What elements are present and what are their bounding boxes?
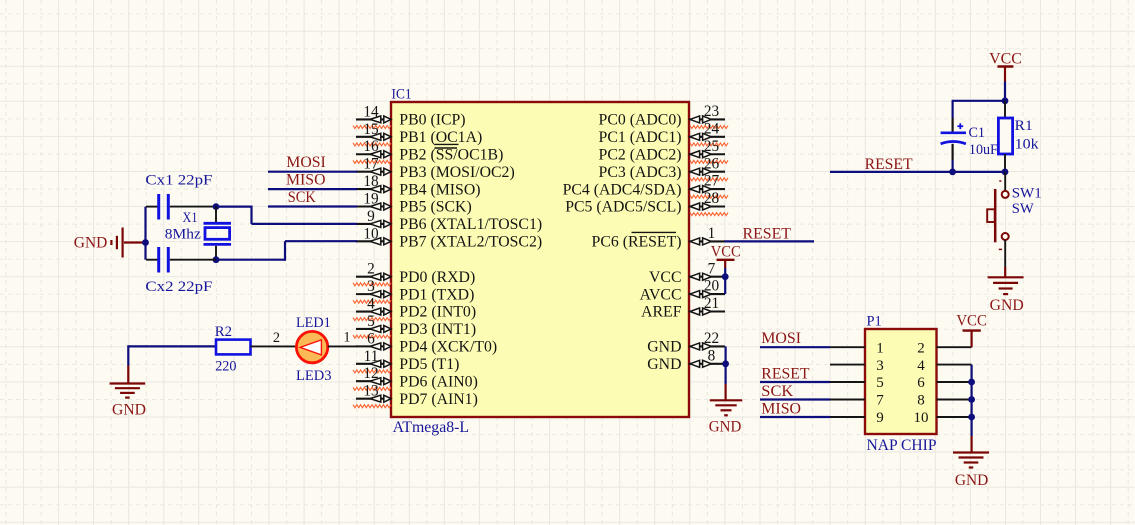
- svg-text:PD5 (T1): PD5 (T1): [399, 356, 459, 373]
- pin 8 (GND): [689, 363, 725, 365]
- pin 13 (PD7): [356, 398, 391, 400]
- svg-text:PB4 (MISO): PB4 (MISO): [399, 181, 480, 198]
- wire net RESET pin1: [724, 240, 814, 242]
- wire net MOSI p1: [760, 346, 830, 348]
- ground GND sw1: [1004, 267, 1006, 277]
- pin 24 (PC1): [689, 136, 725, 138]
- svg-text:2: 2: [367, 261, 375, 278]
- wire net RESET right: [830, 171, 1005, 173]
- wire p1 gnd rail: [970, 365, 972, 436]
- svg-text:2: 2: [273, 330, 280, 346]
- wire vcc to pin7: [724, 268, 726, 277]
- junction node p1-10: [968, 414, 975, 421]
- svg-text:9: 9: [876, 410, 884, 426]
- svg-text:8Mhz: 8Mhz: [165, 226, 201, 242]
- wire pin22 pin8 gnd: [724, 346, 726, 384]
- svg-text:VCC: VCC: [989, 51, 1022, 68]
- svg-text:15: 15: [363, 121, 379, 138]
- P1 pin 9: [830, 416, 865, 418]
- pin 25 (PC2): [689, 153, 725, 155]
- svg-text:IC1: IC1: [392, 87, 412, 103]
- svg-text:PC1 (ADC1): PC1 (ADC1): [599, 129, 682, 146]
- pin 11 (PD5): [356, 363, 391, 365]
- pin 26 (PC3): [689, 171, 725, 173]
- wire vcc down: [1004, 82, 1006, 101]
- svg-text:23: 23: [704, 103, 720, 120]
- svg-text:18: 18: [363, 173, 379, 190]
- pin 16 (PB2): [356, 153, 391, 155]
- svg-text:MISO: MISO: [761, 400, 801, 417]
- svg-text:4: 4: [367, 296, 375, 313]
- junction node XTAL1: [213, 203, 220, 210]
- pin 5 (PD3): [356, 328, 391, 330]
- wire LED to pin6: [328, 345, 357, 347]
- svg-text:RESET: RESET: [865, 156, 914, 173]
- svg-text:25: 25: [704, 138, 720, 155]
- pin 10 (PB7): [356, 240, 391, 242]
- svg-text:PC0 (ADC0): PC0 (ADC0): [599, 112, 682, 129]
- svg-text:PC2 (ADC2): PC2 (ADC2): [599, 146, 682, 163]
- svg-text:GND: GND: [647, 356, 681, 373]
- P1 pin 6: [937, 381, 972, 383]
- svg-text:4: 4: [917, 358, 925, 374]
- pin 17 (PB3): [356, 171, 391, 173]
- svg-text:3: 3: [876, 358, 884, 374]
- svg-text:5: 5: [367, 313, 375, 330]
- svg-text:5: 5: [876, 375, 884, 391]
- svg-text:NAP CHIP: NAP CHIP: [867, 437, 937, 454]
- svg-text:VCC: VCC: [649, 269, 681, 286]
- ground GND chip: [724, 384, 726, 400]
- svg-text:GND: GND: [709, 419, 742, 436]
- svg-text:PD0 (RXD): PD0 (RXD): [399, 269, 475, 286]
- svg-text:3: 3: [367, 278, 375, 295]
- svg-text:12: 12: [363, 365, 378, 382]
- crystal X1: [215, 207, 217, 222]
- svg-text:10uF: 10uF: [969, 142, 998, 158]
- P1 pin 8: [937, 399, 972, 401]
- svg-text:PB1 (OC1A): PB1 (OC1A): [399, 129, 482, 146]
- svg-text:17: 17: [363, 156, 379, 173]
- svg-text:PB6 (XTAL1/TOSC1): PB6 (XTAL1/TOSC1): [399, 216, 542, 233]
- junction node p1-8: [968, 396, 975, 403]
- svg-text:R1: R1: [1015, 118, 1033, 134]
- pin 9 (PB6): [356, 223, 391, 225]
- svg-text:VCC: VCC: [956, 313, 987, 330]
- svg-text:14: 14: [363, 103, 379, 120]
- svg-text:SW: SW: [1012, 201, 1035, 217]
- svg-text:6: 6: [917, 375, 925, 391]
- svg-text:24: 24: [704, 120, 720, 137]
- svg-text:RESET: RESET: [743, 226, 792, 243]
- svg-text:11: 11: [364, 348, 379, 365]
- pin 4 (PD2): [356, 310, 391, 312]
- wire gnd to R2: [128, 345, 216, 347]
- junction node XTAL2: [213, 256, 220, 263]
- svg-text:RESET: RESET: [761, 365, 810, 382]
- svg-text:1: 1: [708, 225, 716, 242]
- svg-text:MOSI: MOSI: [286, 154, 326, 171]
- wire net MISO p1: [760, 416, 830, 418]
- svg-text:27: 27: [704, 173, 720, 190]
- svg-text:10k: 10k: [1015, 137, 1040, 153]
- junction node r1-bottom: [1002, 169, 1009, 176]
- svg-text:19: 19: [363, 191, 379, 208]
- svg-text:GND: GND: [955, 472, 988, 489]
- wire net MOSI: [268, 171, 357, 173]
- pin 23 (PC0): [689, 118, 725, 120]
- svg-text:10: 10: [914, 410, 929, 426]
- junction node p1-6: [968, 379, 975, 386]
- pin 27 (PC4): [689, 188, 725, 190]
- PC6 RESET overline: [632, 231, 677, 233]
- wire sw1 to gnd: [1004, 240, 1006, 267]
- pin 14 (PB0): [356, 118, 391, 120]
- wire net SCK p1: [760, 398, 830, 400]
- svg-text:R2: R2: [215, 324, 232, 340]
- junction node c1-bottom: [949, 169, 956, 176]
- svg-text:PB7 (XTAL2/TOSC2): PB7 (XTAL2/TOSC2): [399, 234, 542, 251]
- capacitor C1 10uF: [951, 101, 953, 118]
- svg-text:9: 9: [367, 208, 375, 225]
- svg-text:AVCC: AVCC: [640, 286, 682, 303]
- svg-text:Cx2 22pF: Cx2 22pF: [145, 279, 212, 295]
- svg-text:20: 20: [704, 278, 720, 295]
- svg-text:Cx1 22pF: Cx1 22pF: [145, 173, 212, 189]
- svg-text:GND: GND: [112, 402, 146, 419]
- svg-text:PD4 (XCK/T0): PD4 (XCK/T0): [399, 339, 497, 356]
- pin 28 (PC5): [689, 205, 725, 207]
- svg-text:AREF: AREF: [641, 304, 682, 321]
- svg-text:LED3: LED3: [296, 368, 332, 384]
- wire r1 to sw1: [1004, 172, 1006, 191]
- svg-text:16: 16: [363, 138, 379, 155]
- led LED1 symbol: [296, 331, 327, 362]
- svg-text:PC6 (RESET): PC6 (RESET): [592, 234, 682, 251]
- svg-text:PB3 (MOSI/OC2): PB3 (MOSI/OC2): [399, 164, 514, 181]
- P1 pin 3: [830, 364, 865, 366]
- resistor R1: [1004, 101, 1006, 118]
- svg-text:7: 7: [708, 260, 716, 277]
- pin 21 (AREF): [689, 310, 725, 312]
- junction node pin7: [722, 273, 729, 280]
- wire net RESET p1: [760, 381, 830, 383]
- P1 pin 1: [830, 346, 865, 348]
- svg-text:26: 26: [704, 155, 720, 172]
- P1 pin 4: [937, 364, 972, 366]
- svg-text:2: 2: [917, 340, 925, 356]
- pin 7 (VCC): [689, 276, 725, 278]
- IC U1 body (ATmega8-L): [391, 102, 689, 417]
- wire R2 to LED: [251, 345, 297, 347]
- svg-text:X1: X1: [183, 210, 198, 226]
- svg-text:7: 7: [876, 393, 884, 409]
- pin 1 (PC6): [689, 240, 725, 242]
- junction node pin8: [722, 360, 729, 367]
- pin 15 (PB1): [356, 136, 391, 138]
- svg-text:P1: P1: [867, 314, 882, 330]
- svg-text:PD2 (INT0): PD2 (INT0): [399, 304, 476, 321]
- svg-text:1: 1: [876, 340, 884, 356]
- svg-text:GND: GND: [990, 297, 1024, 314]
- svg-text:PD3 (INT1): PD3 (INT1): [399, 321, 476, 338]
- svg-text:SCK: SCK: [288, 189, 317, 206]
- pin 6 (PD4): [356, 345, 391, 347]
- svg-text:8: 8: [917, 393, 925, 409]
- svg-text:LED1: LED1: [296, 315, 331, 331]
- PB2 SS overline: [435, 147, 458, 149]
- pin 20 (AVCC): [689, 293, 725, 295]
- pin 3 (PD1): [356, 293, 391, 295]
- svg-text:PB2 (SS/OC1B): PB2 (SS/OC1B): [399, 146, 503, 163]
- svg-text:C1: C1: [969, 125, 986, 141]
- switch SW1: [1002, 191, 1009, 198]
- capacitor Cx1: [146, 206, 158, 208]
- svg-text:SW1: SW1: [1012, 186, 1042, 202]
- svg-text:PB0 (ICP): PB0 (ICP): [399, 112, 465, 129]
- pin 19 (PB5): [356, 205, 391, 207]
- svg-text:10: 10: [363, 225, 379, 242]
- pin 18 (PB4): [356, 188, 391, 190]
- svg-text:PC3 (ADC3): PC3 (ADC3): [599, 164, 682, 181]
- P1 pin 5: [830, 381, 865, 383]
- P1 pin 7: [830, 399, 865, 401]
- resistor R2: [216, 340, 251, 355]
- pin 12 (PD6): [356, 380, 391, 382]
- svg-text:28: 28: [704, 190, 720, 207]
- svg-text:GND: GND: [647, 339, 681, 356]
- pin 22 (GND): [689, 345, 725, 347]
- P1 pin 10: [937, 416, 972, 418]
- wire XTAL2 to pin10: [216, 259, 285, 261]
- ground GND led: [127, 366, 129, 383]
- svg-text:MOSI: MOSI: [761, 330, 801, 347]
- svg-text:MISO: MISO: [286, 171, 326, 188]
- svg-text:PC4 (ADC4/SDA): PC4 (ADC4/SDA): [563, 181, 682, 198]
- capacitor Cx2: [146, 259, 158, 261]
- svg-text:VCC: VCC: [711, 244, 741, 261]
- junction node vcc-top: [1002, 97, 1009, 104]
- svg-text:13: 13: [363, 383, 379, 400]
- svg-text:22: 22: [704, 330, 719, 347]
- svg-text:SCK: SCK: [761, 383, 794, 400]
- connector P1 body: [865, 329, 937, 434]
- svg-text:PD7 (AIN1): PD7 (AIN1): [399, 391, 478, 408]
- wire left rail: [144, 207, 146, 260]
- svg-text:PB5 (SCK): PB5 (SCK): [399, 199, 471, 216]
- pin 2 (PD0): [356, 276, 391, 278]
- svg-text:PD6 (AIN0): PD6 (AIN0): [399, 373, 478, 390]
- ground GND crystal: [124, 241, 146, 243]
- wire XTAL1 to pin9: [216, 206, 252, 208]
- wire vcc to C1: [952, 100, 1005, 102]
- ground GND p1: [970, 436, 972, 452]
- P1 pin 2: [937, 346, 972, 348]
- junction node gnd-rail: [142, 239, 149, 246]
- wire net MISO: [268, 188, 357, 190]
- svg-text:21: 21: [704, 295, 719, 312]
- wire net SCK: [268, 205, 357, 207]
- svg-text:1: 1: [343, 330, 350, 346]
- svg-text:220: 220: [215, 359, 236, 375]
- svg-text:8: 8: [708, 347, 716, 364]
- svg-text:PD1 (TXD): PD1 (TXD): [399, 286, 474, 303]
- svg-text:ATmega8-L: ATmega8-L: [393, 419, 470, 436]
- svg-text:PC5 (ADC5/SCL): PC5 (ADC5/SCL): [565, 199, 681, 216]
- PB1 OC1A underline: [435, 143, 459, 145]
- svg-text:6: 6: [367, 330, 375, 347]
- svg-text:GND: GND: [74, 235, 108, 252]
